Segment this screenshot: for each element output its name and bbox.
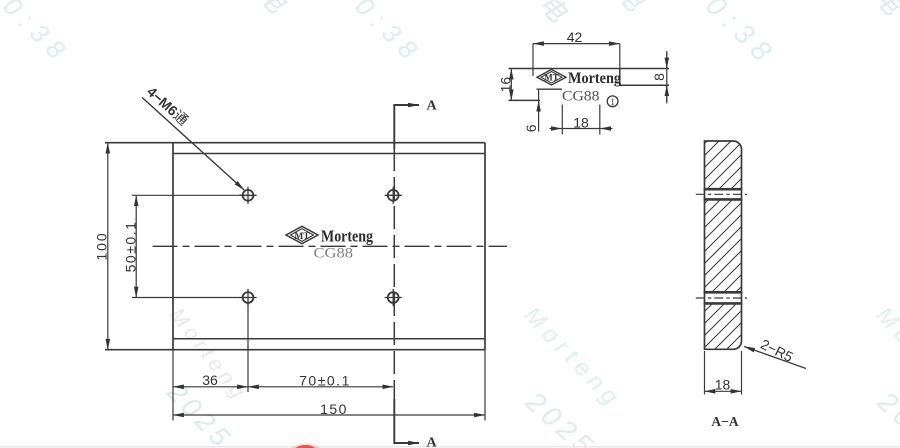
svg-text:8: 8 — [651, 73, 667, 81]
cut line corner top with arrow A — [394, 105, 419, 149]
detail CG88 top line — [537, 88, 563, 90]
bottom hole center line — [696, 297, 747, 299]
center logo diamond MT — [286, 226, 318, 243]
section cut line A-A vertical — [393, 148, 395, 400]
dim 70+-0.1 — [248, 386, 393, 388]
hole bottom-left — [239, 289, 256, 306]
section dim 18 extensions — [704, 351, 706, 395]
dim 18 extensions — [561, 105, 563, 135]
dim 36 — [173, 386, 248, 388]
svg-text:Morteng: Morteng — [568, 70, 621, 87]
watermark dian chars — [252, 0, 900, 28]
svg-text:6: 6 — [523, 124, 539, 132]
hole top-left — [239, 187, 256, 204]
plate bottom edge — [105, 349, 485, 351]
plate left edge — [172, 143, 174, 350]
section outline — [705, 141, 742, 349]
hole top-right — [385, 187, 402, 204]
top hole band lines — [704, 188, 743, 191]
inner top line — [173, 153, 485, 155]
svg-text:A: A — [427, 99, 438, 114]
section hatch — [492, 134, 900, 356]
section dim 18 — [705, 390, 742, 392]
top hole center line — [696, 193, 747, 195]
svg-text:100: 100 — [93, 231, 109, 260]
svg-text:42: 42 — [567, 29, 583, 45]
dim 50+-0.1 — [135, 195, 137, 297]
svg-text:36: 36 — [202, 372, 218, 388]
svg-text:MT: MT — [544, 73, 559, 83]
detail logo diamond MT — [537, 69, 566, 85]
svg-text:18: 18 — [715, 377, 731, 393]
leader 2-R5 — [744, 347, 806, 369]
leader 4-M6 — [142, 97, 244, 190]
dim 6 vertical line — [538, 89, 540, 131]
dim 16 — [510, 69, 512, 101]
dim 8 — [666, 51, 668, 104]
svg-text:16: 16 — [498, 77, 514, 93]
horizontal center line — [153, 245, 508, 247]
erase hatch in hole bands — [703, 190, 743, 198]
cut line corner bottom with arrow A — [394, 399, 419, 443]
inner bottom line — [173, 338, 485, 340]
dim 150 — [173, 414, 485, 416]
svg-text:70±0.1: 70±0.1 — [299, 373, 351, 389]
plate right edge — [484, 143, 486, 350]
svg-text:A: A — [427, 436, 438, 448]
plate top edge — [105, 142, 485, 144]
svg-text:CG88: CG88 — [314, 246, 354, 262]
dim 100 — [107, 143, 109, 350]
svg-text:1: 1 — [610, 97, 615, 107]
watermark 40:38 top-left — [0, 0, 783, 73]
dim 50+-0.1 extension lines — [132, 194, 247, 196]
detail bottom edge left — [509, 99, 541, 101]
svg-text:Morteng: Morteng — [321, 227, 374, 246]
svg-text:CG88: CG88 — [562, 89, 600, 105]
hole bottom-right — [385, 289, 402, 306]
detail step line — [620, 84, 669, 86]
svg-text:18: 18 — [573, 115, 589, 131]
dim 18 — [562, 128, 600, 130]
detail step vertical — [619, 69, 621, 86]
svg-text:150: 150 — [320, 401, 348, 417]
svg-text:MT: MT — [294, 232, 310, 242]
bottom hole band lines — [704, 291, 743, 294]
detail top edge — [509, 68, 670, 70]
svg-text:50±0.1: 50±0.1 — [122, 221, 138, 273]
circled 1 — [607, 96, 618, 107]
page bottom edge line — [0, 446, 900, 448]
bottom dims extension lines — [172, 350, 174, 421]
dim 42 extensions — [532, 44, 534, 76]
dim 42 — [533, 43, 620, 45]
red stamp partial — [288, 444, 324, 448]
svg-text:A−A: A−A — [711, 414, 738, 429]
